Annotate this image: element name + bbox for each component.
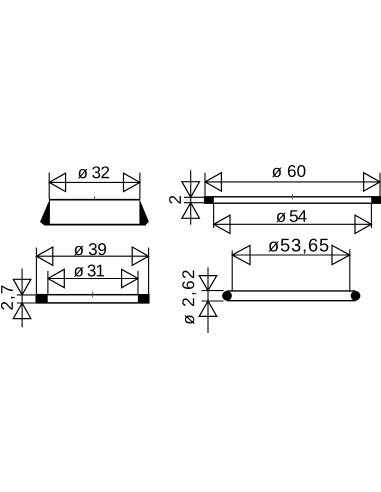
extension line left of ø31 <box>47 271 49 295</box>
extension line left of ø53,65 <box>231 250 233 291</box>
label ø 2,62 (rotated) <box>182 270 196 324</box>
extension line right of ø60 <box>379 173 381 197</box>
thickness ø2,62 upper tick <box>202 290 224 292</box>
label ø 54 <box>276 210 306 222</box>
thickness ø2,62 dimension line <box>207 267 209 333</box>
thickness ø2,62 lower arrowhead <box>199 301 217 316</box>
extension line left of ø32 <box>48 173 50 200</box>
arrowhead right ø60 <box>364 173 380 191</box>
dimension line ø53,65 <box>232 254 350 256</box>
part 2 ring cross-section bar <box>205 197 381 203</box>
O-ring cord top line <box>227 290 356 292</box>
label ø 39 <box>74 243 106 255</box>
part 3 ring cross-section bar <box>36 295 149 303</box>
label 2 (rotated) <box>169 196 181 204</box>
extension line right of ø53,65 <box>349 249 351 292</box>
O-ring right cord circle <box>351 291 361 301</box>
arrowhead left ø32 <box>49 173 65 191</box>
thickness 2,7 lower arrowhead <box>13 303 31 319</box>
arrowhead left ø54 <box>214 215 230 233</box>
part 1 right black flange <box>139 199 149 226</box>
part 2 left section square <box>205 197 214 204</box>
extension line left of ø60 <box>204 173 206 197</box>
arrowhead left ø53,65 <box>232 245 250 264</box>
part 3 right section square <box>138 295 149 304</box>
dimension line ø60 <box>205 181 380 183</box>
thickness 2 lower tick <box>184 202 204 204</box>
thickness ø2,62 upper arrowhead <box>199 276 217 291</box>
extension line right of ø31 <box>137 271 139 295</box>
thickness 2 upper arrowhead <box>182 182 200 198</box>
part 1 bottom edge <box>45 224 146 226</box>
extension line left of ø54 <box>213 203 215 228</box>
label 2,7 (rotated) <box>1 286 15 310</box>
dimension line ø31 <box>48 278 138 280</box>
thickness 2 upper tick <box>184 196 204 198</box>
thickness 2 lower arrowhead <box>182 203 200 219</box>
O-ring cord bottom line <box>227 300 356 302</box>
thickness ø2,62 lower tick <box>202 300 224 302</box>
thickness 2,7 lower tick <box>17 302 36 304</box>
arrowhead right ø31 <box>122 269 138 287</box>
extension line right of ø32 <box>139 173 141 200</box>
center tick part 1 <box>94 196 96 200</box>
center tick part 3 <box>92 292 94 297</box>
dimension line ø39 <box>36 255 148 257</box>
arrowhead left ø60 <box>205 173 221 191</box>
part 3 left section square <box>36 295 48 304</box>
arrowhead right ø39 <box>132 247 148 265</box>
arrowhead right ø53,65 <box>332 245 350 264</box>
dimension line ø32 <box>49 181 140 183</box>
thickness 2,7 dimension line <box>21 269 23 328</box>
extension line left of ø39 <box>35 248 37 295</box>
center tick part 2 <box>292 194 294 199</box>
part 1 top edge <box>49 199 140 201</box>
arrowhead right ø54 <box>355 215 371 233</box>
part 1 left black flange <box>40 199 50 226</box>
O-ring left cord circle <box>222 291 232 301</box>
part 2 right section square <box>371 197 380 204</box>
label ø 32 <box>78 166 109 178</box>
extension line right of ø39 <box>148 248 150 295</box>
thickness 2 dimension line <box>190 170 192 224</box>
thickness 2,7 upper tick <box>17 294 36 296</box>
label ø 60 <box>272 165 305 177</box>
extension line right of ø54 <box>370 203 372 228</box>
dimension line ø54 <box>214 223 372 225</box>
label ø53,65 <box>268 239 328 254</box>
label ø 31 <box>74 265 104 277</box>
arrowhead left ø39 <box>36 247 52 265</box>
arrowhead right ø32 <box>124 173 140 191</box>
thickness 2,7 upper arrowhead <box>13 279 31 295</box>
arrowhead left ø31 <box>48 269 64 287</box>
